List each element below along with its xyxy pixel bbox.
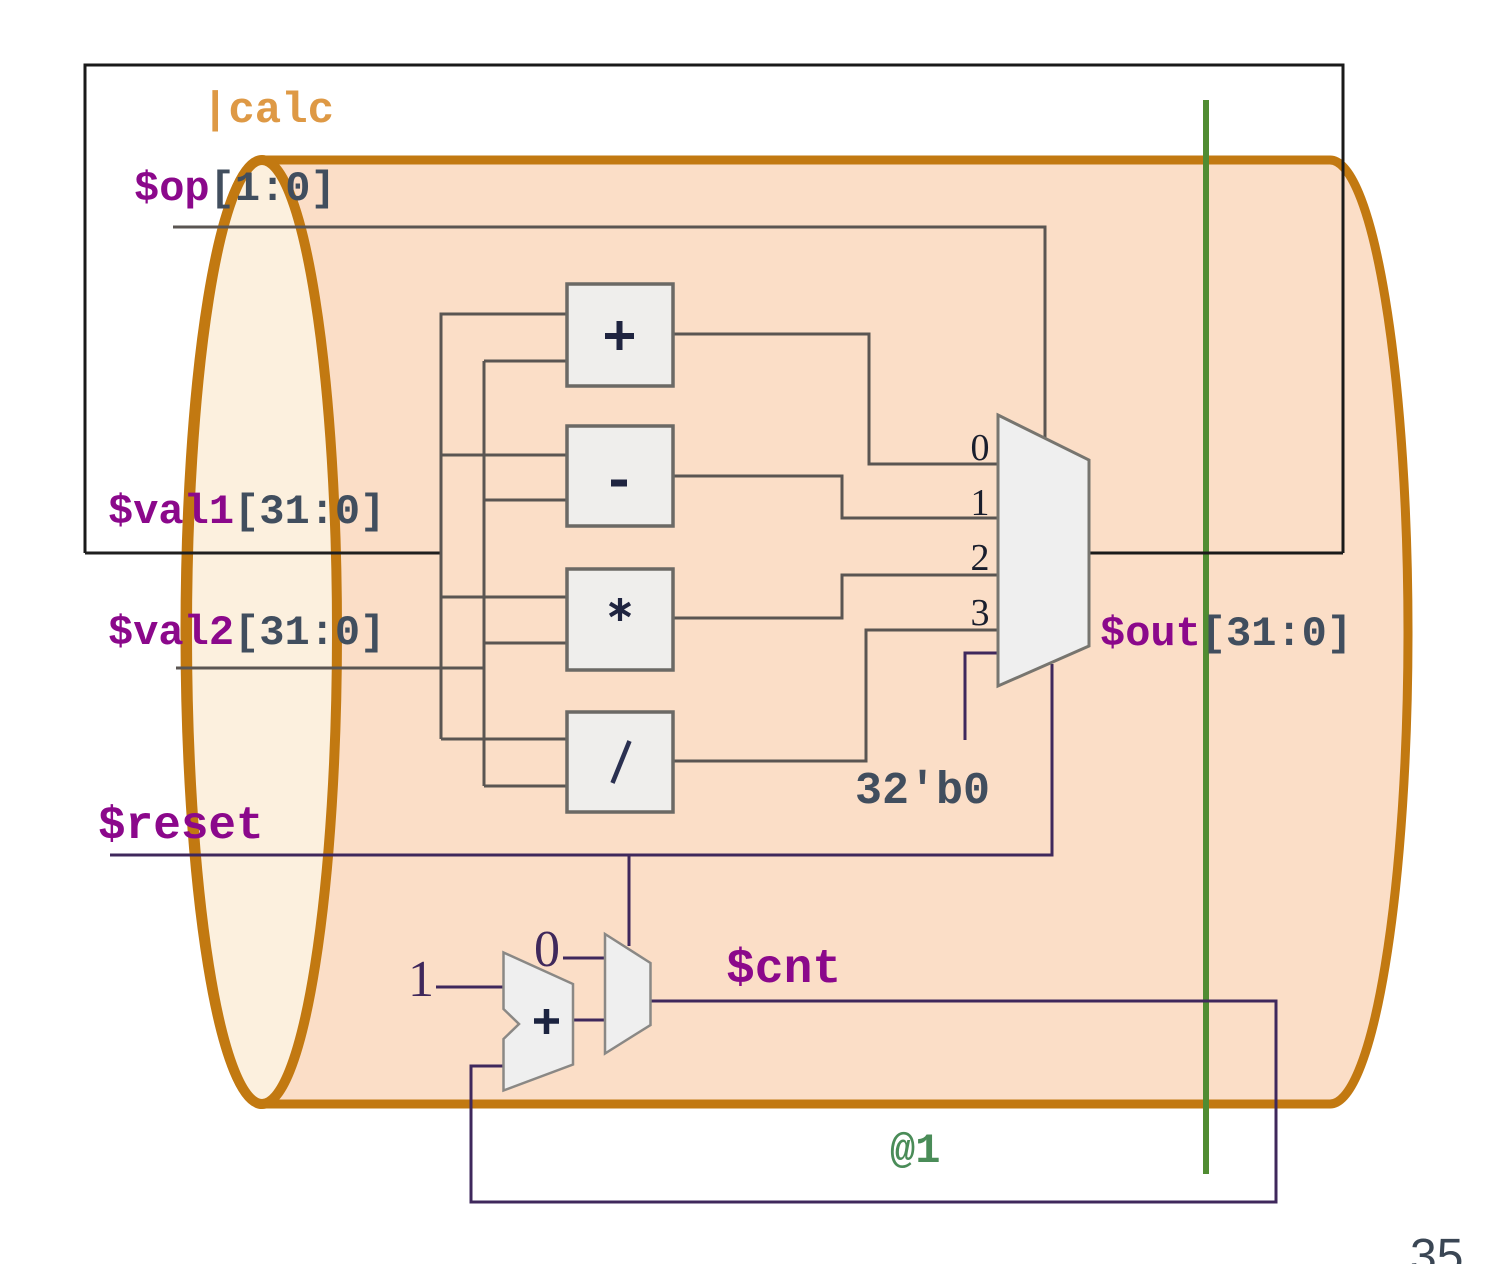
- subtractor box -: [567, 426, 673, 526]
- svg-text:2: 2: [971, 537, 990, 579]
- svg-text:$cnt: $cnt: [726, 943, 841, 997]
- svg-text:0: 0: [971, 427, 990, 469]
- svg-text:3: 3: [971, 592, 990, 634]
- svg-text:|calc: |calc: [202, 86, 334, 136]
- wire adder output to mux in0: [673, 334, 998, 464]
- wire divider output to mux in3: [673, 630, 998, 761]
- clock stage line @1: [1203, 100, 1209, 1174]
- svg-text:$out[31:0]: $out[31:0]: [1100, 610, 1352, 658]
- pipeline cylinder body: [185, 160, 1408, 1104]
- wire 32'b0 default input: [965, 653, 998, 740]
- svg-text:1: 1: [971, 482, 990, 524]
- svg-text:32'b0: 32'b0: [855, 766, 990, 817]
- wire $val1 (bus + taps): [85, 552, 441, 555]
- wire $reset: [110, 664, 1052, 946]
- svg-text:$val1[31:0]: $val1[31:0]: [108, 488, 385, 536]
- wire $out (mux output to scope edge): [1089, 552, 1343, 555]
- counter adder plus symbol: [534, 1009, 559, 1034]
- scope box |calc: [85, 65, 1343, 553]
- svg-text:$op[1:0]: $op[1:0]: [134, 165, 336, 213]
- wire counter adder to counter mux: [573, 1019, 605, 1022]
- svg-text:35: 35: [1410, 1230, 1463, 1264]
- wire $cnt with feedback loop: [471, 1001, 1276, 1202]
- wire multiplier output to mux in2: [673, 575, 998, 618]
- pipeline cylinder left face (ellipse): [187, 160, 337, 1104]
- counter adder (ALU shape): [504, 953, 574, 1091]
- svg-text:@1: @1: [890, 1127, 940, 1175]
- wire constant 1 into counter adder: [436, 986, 503, 989]
- adder box +: [567, 284, 673, 386]
- svg-text:$val2[31:0]: $val2[31:0]: [108, 609, 385, 657]
- divider box /: [567, 712, 673, 812]
- counter mux: [605, 934, 651, 1054]
- svg-text:$reset: $reset: [98, 800, 264, 852]
- result mux U1: [998, 415, 1089, 686]
- svg-text:0: 0: [534, 921, 560, 978]
- wire constant 0 into counter mux: [563, 957, 605, 960]
- svg-text:1: 1: [408, 951, 434, 1008]
- multiplier box *: [567, 569, 673, 670]
- wire $op: [173, 227, 1045, 438]
- wire $val2 (bus + taps): [176, 361, 567, 786]
- wire subtractor output to mux in1: [673, 476, 998, 518]
